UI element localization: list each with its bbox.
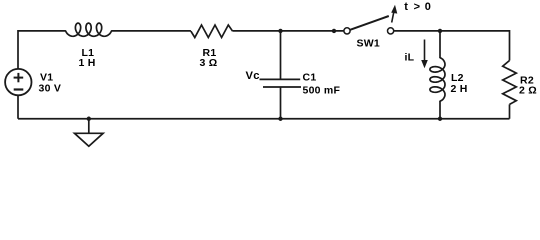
resistor R1 <box>191 25 233 38</box>
node capacitor-top junction <box>278 29 282 33</box>
wire switch to top-right corner <box>394 31 510 61</box>
inductor L2 <box>430 58 445 102</box>
wire L2 branch top <box>439 31 441 58</box>
node L2-bottom junction <box>438 117 442 121</box>
svg-text:2 Ω: 2 Ω <box>519 85 537 97</box>
node switch-left junction <box>332 29 336 33</box>
capacitor C1 bottom plate <box>263 86 301 88</box>
wire bottom-left to V1 <box>17 96 19 119</box>
svg-text:2 H: 2 H <box>451 83 468 95</box>
capacitor branch wire top <box>280 31 282 80</box>
voltage source V1 <box>5 69 31 95</box>
wire bottom rail <box>18 118 510 120</box>
wire top-left to L1 <box>18 31 66 69</box>
capacitor C1 top plate (with Vc tie) <box>260 78 301 80</box>
switch SW1 throw circle right <box>388 28 394 34</box>
svg-text:0: 0 <box>425 1 431 13</box>
node L2-top junction <box>438 29 442 33</box>
svg-text:t: t <box>404 1 408 13</box>
capacitor branch wire bottom <box>280 87 282 119</box>
svg-text:SW1: SW1 <box>357 37 381 49</box>
node capacitor-bottom junction <box>278 117 282 121</box>
svg-text:1 H: 1 H <box>79 57 96 69</box>
inductor L1 <box>66 23 112 36</box>
ground <box>75 119 104 146</box>
svg-text:>: > <box>414 1 421 13</box>
switch SW1 pole circle left <box>344 28 350 34</box>
svg-text:3 Ω: 3 Ω <box>200 57 218 69</box>
svg-text:C1: C1 <box>303 72 317 84</box>
svg-text:Vc: Vc <box>246 70 260 82</box>
svg-text:500 mF: 500 mF <box>303 85 341 97</box>
node ground junction <box>87 117 91 121</box>
current arrow iL <box>421 40 428 69</box>
wire L1 to R1 <box>112 30 191 32</box>
svg-text:iL: iL <box>405 52 415 64</box>
switch SW1 opening arrow <box>391 5 397 23</box>
svg-text:30 V: 30 V <box>39 82 62 94</box>
wire R2 to bottom-right corner <box>509 104 511 118</box>
switch SW1 blade <box>350 16 389 30</box>
resistor R2 <box>503 61 517 105</box>
wire R1 to switch <box>233 30 344 32</box>
wire L2 branch bottom <box>439 101 441 118</box>
